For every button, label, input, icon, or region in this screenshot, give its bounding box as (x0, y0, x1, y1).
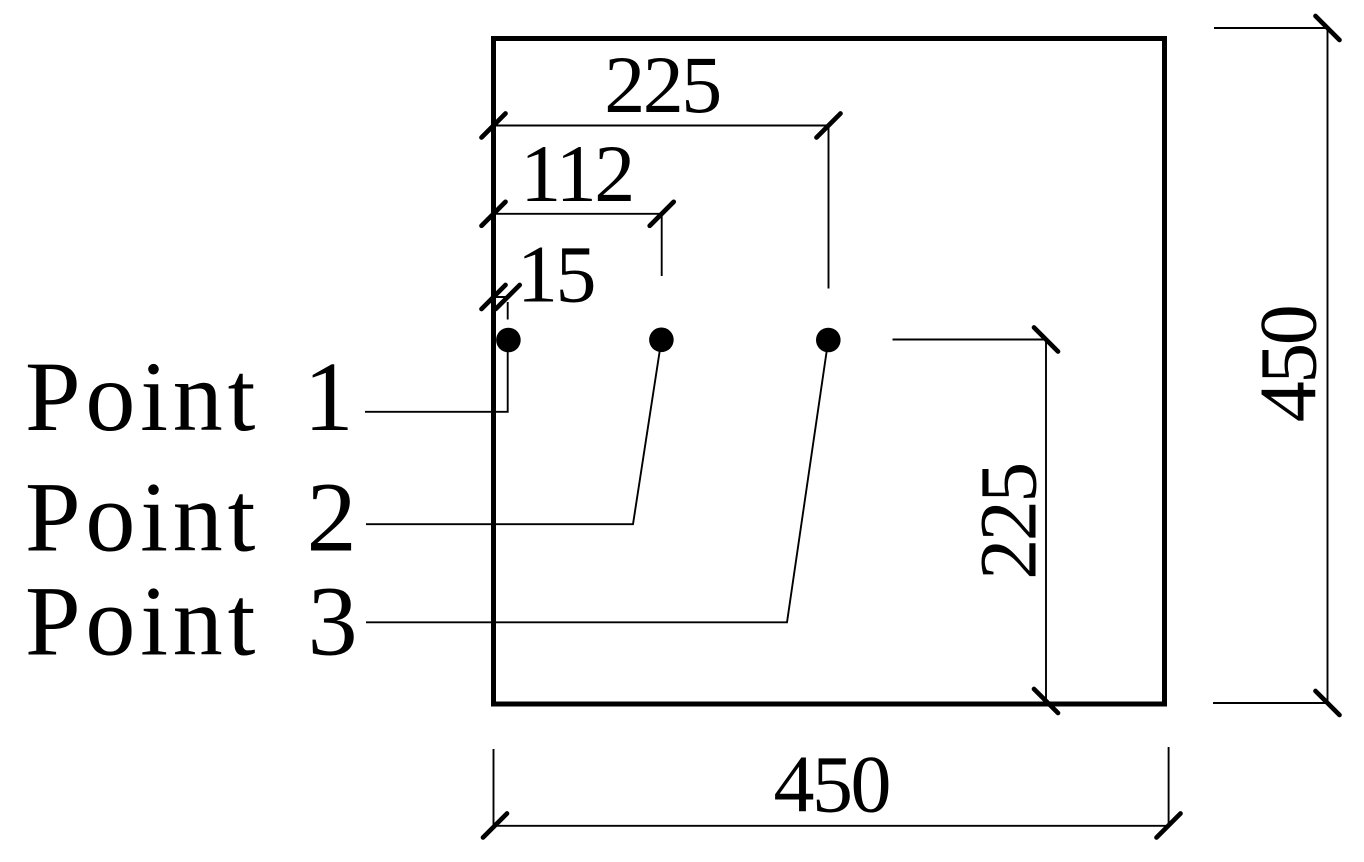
svg-text:450: 450 (1243, 307, 1334, 423)
dimension 450 bottom: dim line (493, 825, 1169, 827)
dimension 450 right: bottom extension line (1213, 702, 1329, 704)
svg-text:Point: Point (25, 566, 260, 677)
leader Point 2 (366, 340, 661, 524)
svg-text:2: 2 (307, 462, 362, 573)
svg-text:225: 225 (604, 39, 720, 130)
square slab outline 450x450 (494, 39, 1165, 705)
dimension 450 bottom: right tick (1157, 814, 1181, 838)
dimension 450 bottom: left tick (483, 814, 507, 838)
svg-text:112: 112 (520, 128, 632, 219)
dimension 225 vertical inner: dim line (1045, 340, 1047, 702)
dimension 450 right: bottom tick (1316, 691, 1340, 715)
dimension 225 top: right extension line (828, 126, 830, 289)
dimension 225 top: left tick (482, 114, 506, 138)
dimension 112: dim line (492, 213, 663, 215)
dimension 15: left tick (482, 285, 506, 309)
dimension 450 bottom: left extension line (493, 749, 495, 827)
svg-text:225: 225 (963, 464, 1054, 580)
dimension 225 vertical inner: top tick (1034, 328, 1058, 352)
dimension 112: right extension line (661, 214, 663, 276)
dimension 450 right: top extension line (1214, 27, 1329, 29)
dimension 15: right tick (496, 285, 520, 309)
point P3 dot (816, 328, 841, 353)
point P2 dot (649, 328, 674, 353)
svg-text:Point: Point (25, 341, 260, 452)
point P1 dot (496, 328, 521, 353)
dimension 450 right: top tick (1316, 16, 1340, 40)
leader Point 1 (365, 341, 508, 412)
svg-text:Point: Point (25, 462, 260, 573)
svg-text:3: 3 (308, 566, 363, 677)
svg-text:15: 15 (517, 229, 594, 320)
leader Point 3 (366, 340, 828, 622)
svg-text:1: 1 (304, 341, 359, 452)
dimension 112: right tick (650, 202, 674, 226)
dimension 225 top: dim line (492, 125, 830, 127)
dimension 450 right: dim line (1327, 28, 1329, 703)
dimension 15: extension line below (507, 302, 509, 320)
dimension 450 bottom: right extension line (1168, 747, 1170, 828)
dimension 225 vertical inner: bottom tick (1034, 689, 1058, 713)
dimension 225 top: right tick (817, 114, 841, 138)
dimension 225 vertical inner: top extension line (893, 339, 1047, 341)
svg-text:450: 450 (774, 739, 890, 830)
dimension 112: left tick (482, 202, 506, 226)
dimension 15: dim line (492, 296, 510, 298)
